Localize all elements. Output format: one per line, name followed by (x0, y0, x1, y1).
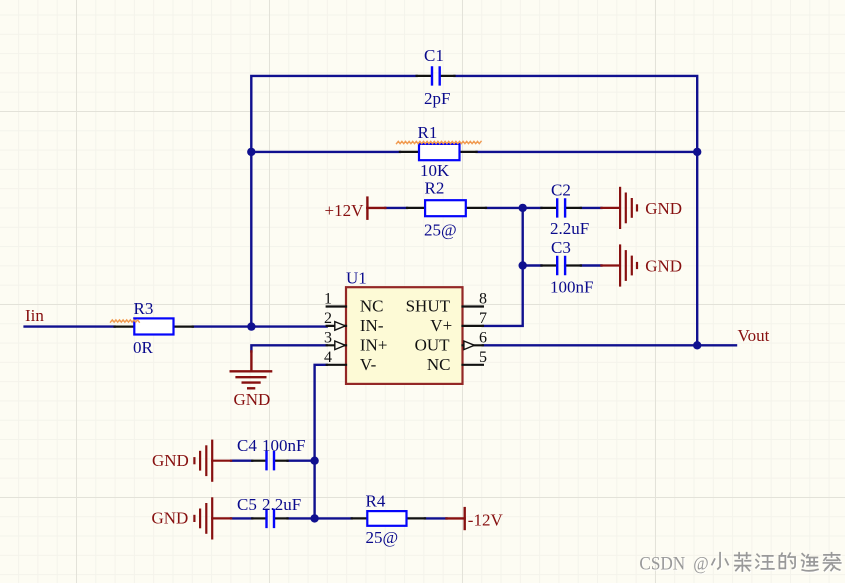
svg-text:2: 2 (324, 310, 332, 327)
svg-text:GND: GND (645, 199, 682, 218)
svg-text:C1: C1 (424, 46, 444, 65)
svg-text:25@: 25@ (366, 528, 399, 547)
ground GND (C3, right) (601, 246, 637, 286)
svg-text:+12V: +12V (325, 201, 365, 220)
wire: top feedback wire (C1 row) (251, 76, 697, 152)
wire: R4 to -12V (425, 517, 447, 519)
svg-text:6: 6 (479, 329, 487, 346)
svg-text:4: 4 (324, 349, 332, 366)
pin 5 NC (463, 364, 483, 366)
svg-text:U1: U1 (346, 268, 367, 287)
pin 1 NC (327, 305, 346, 307)
junction: C5 row (310, 514, 318, 522)
wire: V+ vertical into pin 7 (483, 208, 523, 326)
power port +12V (325, 198, 386, 220)
pin 7 V+ (463, 325, 483, 327)
svg-text:C3: C3 (551, 238, 571, 257)
pin 3 IN+ (327, 344, 346, 346)
svg-text:NC: NC (360, 297, 384, 316)
ground GND (C4, left) (194, 441, 231, 481)
svg-text:R2: R2 (425, 179, 445, 198)
svg-text:Vout: Vout (738, 326, 770, 345)
wire: R2 to C2 junction (486, 207, 523, 209)
junction: input node (247, 322, 255, 330)
resistor R3 (115, 299, 193, 357)
svg-text:IN-: IN- (360, 316, 384, 335)
svg-text:IN+: IN+ (360, 335, 388, 354)
wire: IN+ to GND stem (251, 345, 326, 351)
wire: +12V to R2 (385, 207, 407, 209)
svg-text:7: 7 (479, 310, 487, 327)
pin 2 IN- (327, 325, 346, 327)
junction: R1 row left (247, 148, 255, 156)
ground GND (C5, left) (194, 498, 231, 538)
pin 4 V- (327, 364, 346, 366)
svg-text:R4: R4 (366, 492, 386, 511)
svg-text:SHUT: SHUT (406, 297, 451, 316)
svg-text:1: 1 (324, 291, 332, 308)
capacitor C3 (541, 238, 593, 297)
svg-text:C5: C5 (237, 495, 257, 514)
capacitor C5 (237, 495, 301, 527)
svg-text:3: 3 (324, 329, 332, 346)
svg-text:OUT: OUT (415, 335, 451, 354)
pin 6 OUT (463, 344, 483, 346)
svg-text:GND: GND (234, 390, 271, 409)
svg-text:10K: 10K (420, 161, 450, 180)
pin 8 SHUT (463, 305, 483, 307)
capacitor C1 (417, 46, 455, 108)
svg-text:R1: R1 (418, 123, 438, 142)
svg-text:C4: C4 (237, 436, 257, 455)
wire: right vertical from R1 row to output junction (696, 152, 698, 345)
wire: left vertical from R1 row to input junction (250, 152, 252, 327)
svg-text:2pF: 2pF (424, 89, 450, 108)
capacitor C4 (237, 436, 305, 469)
wire: R1 row left (251, 151, 400, 153)
power port -12V (447, 508, 504, 529)
ground GND (below U1) (231, 351, 271, 388)
svg-text:Iin: Iin (25, 306, 44, 325)
svg-text:-12V: -12V (468, 511, 504, 530)
svg-text:8: 8 (479, 291, 487, 308)
resistor R2 (407, 179, 486, 240)
svg-text:0R: 0R (133, 338, 154, 357)
svg-text:V+: V+ (430, 316, 452, 335)
svg-text:GND: GND (645, 257, 682, 276)
svg-text:V-: V- (360, 355, 377, 374)
svg-text:2.2uF: 2.2uF (550, 219, 589, 238)
svg-text:2.2uF: 2.2uF (262, 495, 301, 514)
junction: C3 row (519, 261, 527, 269)
orange error squiggle at R3 (111, 320, 140, 322)
wire: C3 row segments (523, 264, 542, 266)
wire: C2 row segments (523, 207, 542, 209)
resistor R1 (400, 123, 477, 180)
ground GND (C2, right) (601, 188, 637, 228)
svg-text:25@: 25@ (424, 221, 457, 240)
svg-text:GND: GND (152, 509, 189, 528)
wire: OUT to Vout (483, 344, 736, 346)
junction: C4 row (310, 457, 318, 465)
junction: output node (693, 341, 701, 349)
wire: V- (pin 4) down to C5 row (315, 365, 327, 519)
svg-text:5: 5 (479, 349, 487, 366)
wire: R1 row right (477, 151, 698, 153)
junction: R1 row right (693, 148, 701, 156)
wire: Iin to R3 (25, 325, 115, 327)
orange error squiggle over R1 (397, 141, 482, 143)
svg-text:100nF: 100nF (262, 436, 305, 455)
svg-text:GND: GND (152, 451, 189, 470)
wire: C5 row segments (231, 517, 252, 519)
wire: C4 row segments (231, 460, 252, 462)
svg-text:100nF: 100nF (550, 278, 593, 297)
junction: C2 row (519, 204, 527, 212)
svg-text:C2: C2 (551, 180, 571, 199)
svg-text:R3: R3 (134, 299, 154, 318)
resistor R4 (352, 492, 425, 547)
capacitor C2 (541, 180, 589, 238)
op-amp U1 (324, 268, 487, 384)
svg-text:NC: NC (427, 355, 451, 374)
wire: R3 to pin 2 (IN-) (193, 325, 327, 327)
